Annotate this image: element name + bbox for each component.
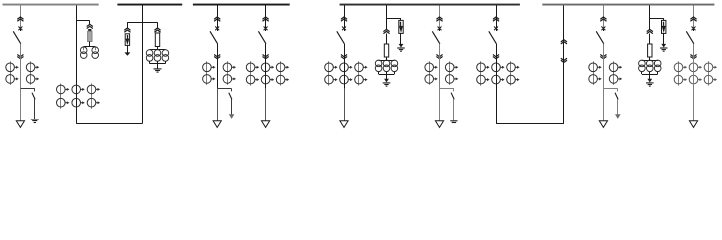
three-phase VT bank of bay 4 bbox=[639, 60, 646, 67]
outgoing feeder arrow of bay 2-1 bbox=[213, 121, 221, 128]
drawout contact (upper) of feeder bay 3-2 bbox=[436, 17, 442, 19]
wire: bay 3-2 to cable bbox=[439, 89, 441, 121]
fuse of VT bay 3 bbox=[384, 44, 388, 57]
drawout contact of VT bay 3 bbox=[383, 29, 389, 31]
circuit breaker feeder bay 2-2 (X contact + blade) bbox=[264, 27, 268, 31]
drawout contact of arrester branch bbox=[124, 28, 130, 30]
drawout contact (lower) of feeder bay 2-2 bbox=[263, 57, 269, 59]
drawout contact (lower) of feeder bay 4-2 bbox=[690, 57, 696, 59]
VT bank bracket bay 3 bbox=[378, 72, 380, 74]
drawout contact (lower) of incomer bay A bbox=[17, 57, 23, 59]
drawout contact (upper) of incomer bay A bbox=[17, 17, 23, 19]
voltage transformer VT2 bbox=[95, 47, 97, 50]
drawout contact of VT bay 4 bbox=[647, 29, 653, 31]
wire: incomer bay A below breaker bbox=[20, 44, 22, 62]
earth arrow of surge arrester bbox=[127, 45, 129, 52]
drawout contact (upper) of feeder bay 3-1 bbox=[341, 17, 347, 19]
wire: incomer bay A drop from busbar bbox=[20, 6, 22, 29]
fuse of VT tap bbox=[88, 29, 91, 31]
drawout contact (lower) of feeder bay 3-2 bbox=[436, 57, 442, 59]
earth connection arrow of bay 2-1 bbox=[231, 99, 233, 115]
earthing switch branch of bay 3-2 bbox=[440, 88, 454, 90]
drawout contact (lower) of feeder bay 2-1 bbox=[214, 57, 220, 59]
current transformers (3x2) of bay 4-2 bbox=[678, 61, 680, 85]
current transformers (2x2) of bay 3-2 bbox=[429, 61, 431, 85]
outgoing feeder arrow of bay 4-2 bbox=[689, 121, 697, 128]
busbar section 4 bbox=[542, 4, 714, 6]
wire: VT bay 3 stem bbox=[386, 34, 388, 45]
VT bank bracket bay 4 bbox=[641, 72, 643, 74]
wire: feeder bay 3-2 below breaker bbox=[439, 44, 441, 62]
drawout link (lower) of section 4 tie bbox=[561, 60, 567, 62]
circuit breaker feeder bay 4-2 (X contact + blade) bbox=[692, 27, 696, 31]
drawout contact (upper) of feeder bay 4-2 bbox=[690, 17, 696, 19]
current transformers (3x2) of bay 2-2 bbox=[250, 61, 252, 85]
wire: feeder bay 4-1 below breaker bbox=[603, 44, 605, 62]
wire: feeder bay 4-1 drop from busbar bbox=[603, 6, 605, 29]
earthing switch branch of bay 2-1 bbox=[217, 88, 231, 90]
wire: tie loop bottom section 3-4 bbox=[496, 123, 564, 125]
wire: feeder bay 2-2 drop from busbar bbox=[265, 6, 267, 29]
VT bank star-point bracket bbox=[149, 61, 151, 63]
drawout contact (upper) of feeder bay 2-2 bbox=[263, 17, 269, 19]
earth symbol of bay 3-2 bbox=[453, 99, 455, 120]
current transformers (3x2) of bay 3-1 bbox=[328, 61, 330, 85]
three-phase voltage transformer bank bbox=[149, 48, 151, 51]
drawout contact (upper) of tie breaker bay 3-3 bbox=[493, 17, 499, 19]
busbar section 3 bbox=[340, 4, 520, 6]
wire: bay 2-1 to cable bbox=[217, 89, 219, 121]
wire: bay 4-1 through CT section bbox=[603, 62, 605, 89]
earthing switch branch of bay 4-1 bbox=[603, 88, 617, 90]
wire: VT bay 3 drop bbox=[386, 6, 388, 30]
outgoing feeder arrow of bay 3-1 bbox=[340, 121, 348, 128]
wire: arrester branch bar bbox=[387, 18, 402, 20]
earth connection arrow of bay 4-1 bbox=[617, 99, 619, 115]
drawout contact of VT tap bbox=[87, 24, 93, 26]
drawout contact (lower) of feeder bay 4-1 bbox=[600, 57, 606, 59]
fuse of VT bay 4 bbox=[648, 44, 652, 57]
outgoing feeder arrow of bay 2-2 bbox=[262, 121, 270, 128]
drawout contact of VT branch bbox=[154, 28, 160, 30]
current transformers (2x2) of bay A bbox=[10, 61, 12, 85]
wire: tie breaker bay 3-3 below breaker bbox=[496, 44, 498, 62]
wire: feeder bay 3-1 drop from busbar bbox=[344, 6, 346, 29]
drawout contact (lower) of feeder bay 3-1 bbox=[341, 57, 347, 59]
busbar section 1 bbox=[3, 4, 99, 6]
drawout contact (lower) of tie breaker bay 3-3 bbox=[493, 57, 499, 59]
earth symbol of bay A bbox=[34, 99, 36, 119]
circuit breaker feeder bay 3-1 (X contact + blade) bbox=[342, 27, 346, 31]
earth of surge arrester bay 4 bbox=[663, 33, 665, 44]
wire: VT bay 4 stem bbox=[649, 34, 651, 45]
wire: feeder bay 2-1 below breaker bbox=[217, 44, 219, 62]
fuse of VT branch bbox=[155, 33, 159, 47]
current transformers (3x2) of section 1 tie bbox=[60, 84, 62, 109]
wire: VT bay 4 drop bbox=[649, 6, 651, 30]
wire: VT branch stem bbox=[157, 47, 159, 50]
wire: feeder bay 3-1 below breaker bbox=[344, 44, 346, 62]
surge arrester bbox=[125, 34, 129, 46]
wire: feeder bay 2-2 below breaker bbox=[265, 44, 267, 62]
circuit breaker feeder bay 4-1 (X contact + blade) bbox=[601, 27, 605, 31]
wire: tie breaker bay 3-3 drop from busbar bbox=[496, 6, 498, 29]
wire: section 1 tie riser bbox=[76, 6, 78, 124]
wire: bay 2-1 through CT section bbox=[217, 62, 219, 89]
drawout link (upper) of section 4 tie bbox=[561, 40, 567, 42]
wire: bay 4-2 to cable bbox=[693, 89, 695, 121]
ground of VT bank bbox=[154, 68, 162, 70]
wire: VT tap branch bbox=[76, 20, 90, 22]
outgoing feeder arrow of bay 4-1 bbox=[599, 121, 607, 128]
current transformers (2x2) of bay 2-1 bbox=[206, 61, 208, 85]
surge arrester of bay 4 bbox=[662, 20, 666, 33]
busbar section 1b bbox=[117, 4, 182, 6]
wire: section tie loop bottom bbox=[76, 123, 142, 125]
wire: arrester branch bar bay 4 bbox=[650, 18, 664, 20]
wire: feeder bay 4-2 below breaker bbox=[693, 44, 695, 62]
wire: section 1b tap bar bbox=[127, 22, 157, 24]
ground arrow of VT bank bay 4 bbox=[647, 79, 652, 83]
earthing switch branch of bay A bbox=[20, 88, 34, 90]
wire: feeder bay 4-2 drop from busbar bbox=[693, 6, 695, 29]
outgoing feeder arrow of bay 3-2 bbox=[435, 121, 443, 128]
wire: bay 2-2 to cable bbox=[265, 89, 267, 121]
surge arrester of bay 3 bbox=[399, 20, 403, 33]
current transformers (2x2) of bay 4-1 bbox=[593, 61, 595, 85]
circuit breaker feeder bay 3-2 (X contact + blade) bbox=[438, 27, 442, 31]
wire: bay 4-1 to cable bbox=[603, 89, 605, 121]
wire: bay 3-1 through CT section bbox=[344, 62, 346, 89]
circuit breaker tie breaker bay 3-3 (X contact + blade) bbox=[494, 27, 498, 31]
ground arrow of VT bank bay 3 bbox=[384, 79, 389, 83]
wire: section 1b riser bbox=[142, 6, 144, 124]
wire: VT tap stem bbox=[89, 42, 91, 48]
earth of surge arrester bay 3 bbox=[400, 33, 402, 44]
wire: bay 3-1 to cable bbox=[344, 89, 346, 121]
wire: bay A through CT section bbox=[20, 62, 22, 89]
drawout contact (upper) of feeder bay 2-1 bbox=[214, 17, 220, 19]
three-phase VT bank of bay 3 bbox=[375, 60, 382, 67]
circuit breaker feeder bay 2-1 (X contact + blade) bbox=[215, 27, 219, 31]
outgoing feeder arrow of bay A bbox=[16, 121, 24, 128]
wire: bay 3-2 through CT section bbox=[439, 62, 441, 89]
voltage transformer VT1 bbox=[83, 47, 85, 50]
circuit breaker incomer bay A (X contact + blade) bbox=[18, 27, 22, 31]
wire: bay A to cable bbox=[20, 89, 22, 121]
wire: section 4 tie riser bbox=[563, 6, 565, 124]
wire: feeder bay 2-1 drop from busbar bbox=[217, 6, 219, 29]
drawout contact (upper) of feeder bay 4-1 bbox=[600, 17, 606, 19]
wire: feeder bay 3-2 drop from busbar bbox=[439, 6, 441, 29]
wire: bay 3-3 through CT section bbox=[496, 62, 498, 124]
wire: bay 2-2 through CT section bbox=[265, 62, 267, 89]
wire: bay 4-2 through CT section bbox=[693, 62, 695, 89]
current transformers (3x2) of bay 3-3 bbox=[480, 61, 482, 85]
busbar section 2 bbox=[193, 4, 290, 6]
